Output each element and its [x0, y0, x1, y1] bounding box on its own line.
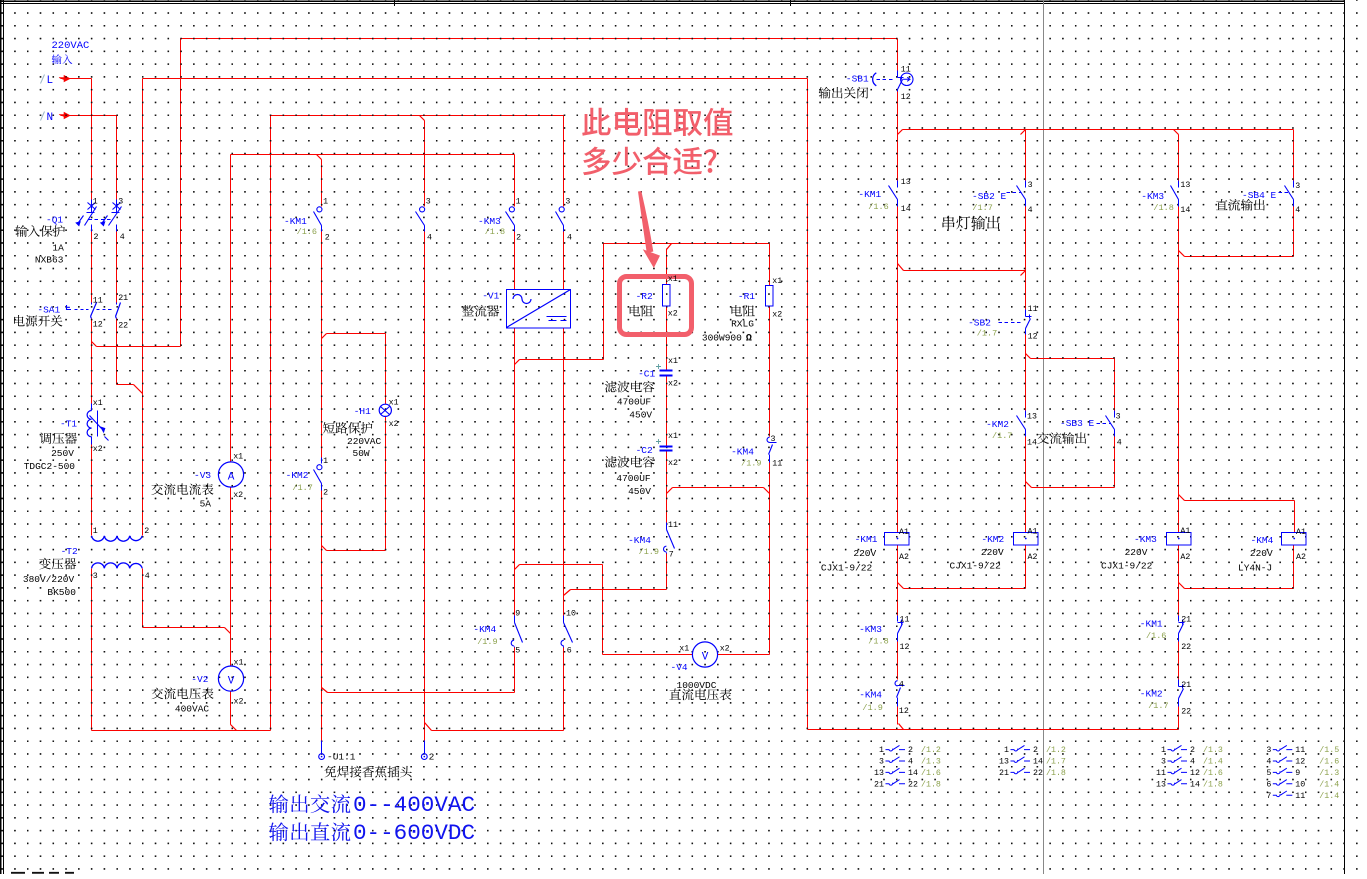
svg-text:/1.3: /1.3	[921, 757, 941, 767]
svg-text:1000VDC: 1000VDC	[677, 680, 717, 691]
svg-text:1: 1	[879, 746, 884, 755]
svg-text:450V: 450V	[629, 410, 652, 421]
svg-text:-SB1: -SB1	[846, 73, 869, 84]
svg-text:21: 21	[1181, 681, 1191, 690]
svg-text:2: 2	[323, 489, 328, 498]
svg-text:A1: A1	[1296, 528, 1306, 537]
svg-text:220VAC: 220VAC	[52, 40, 90, 52]
svg-text:/1.9: /1.9	[862, 703, 882, 713]
svg-text:0--400VAC: 0--400VAC	[353, 792, 475, 818]
svg-text:x1: x1	[668, 275, 678, 284]
svg-text:3: 3	[1028, 181, 1033, 190]
svg-text:V: V	[228, 675, 235, 687]
svg-text:RXLG: RXLG	[731, 318, 754, 329]
svg-text:-KM3: -KM3	[1134, 534, 1157, 545]
svg-text:x1: x1	[668, 357, 678, 366]
svg-text:CJX1-9/22: CJX1-9/22	[950, 561, 1002, 572]
svg-text:-V3: -V3	[194, 470, 211, 481]
svg-text:-SB2 E: -SB2 E	[972, 191, 1007, 202]
svg-text:L: L	[47, 75, 54, 87]
svg-text:x1: x1	[93, 399, 103, 408]
svg-text:3: 3	[1266, 746, 1271, 755]
svg-text:11: 11	[900, 616, 910, 625]
svg-text:x2: x2	[668, 379, 678, 388]
svg-text:12: 12	[899, 707, 909, 716]
svg-text:1: 1	[323, 457, 328, 466]
svg-text:220VAC: 220VAC	[347, 436, 382, 447]
svg-text:/1.8: /1.8	[485, 227, 505, 237]
svg-text:4: 4	[1295, 206, 1300, 215]
svg-text:1: 1	[93, 197, 98, 206]
svg-text:/1.3: /1.3	[1319, 768, 1339, 778]
svg-text:CJX1-9/22: CJX1-9/22	[821, 563, 873, 574]
svg-text:A2: A2	[1296, 553, 1306, 562]
svg-text:/1.7: /1.7	[292, 483, 312, 493]
svg-text:7: 7	[1266, 792, 1271, 801]
svg-text:450V: 450V	[628, 486, 651, 497]
svg-text:4: 4	[427, 234, 432, 243]
svg-text:-KM2: -KM2	[986, 419, 1009, 430]
svg-text:11: 11	[1295, 792, 1305, 801]
svg-text:/1.6: /1.6	[868, 202, 888, 212]
svg-text:/1.6: /1.6	[297, 227, 317, 237]
svg-text:14: 14	[901, 205, 911, 214]
svg-text:1: 1	[323, 197, 328, 206]
svg-text:-KM2: -KM2	[1140, 689, 1163, 700]
svg-text:x1: x1	[234, 658, 244, 667]
svg-text:3: 3	[1116, 413, 1121, 422]
svg-text:x2: x2	[234, 697, 244, 706]
svg-text:-KM4: -KM4	[628, 535, 651, 546]
svg-text:x1: x1	[233, 453, 243, 462]
svg-text:1: 1	[516, 197, 521, 206]
svg-text:22: 22	[118, 322, 128, 331]
svg-text:-SB2: -SB2	[968, 317, 991, 328]
svg-text:x2: x2	[668, 459, 678, 468]
svg-text:14: 14	[908, 769, 918, 778]
svg-text:4: 4	[120, 233, 125, 242]
svg-text:380V/220V: 380V/220V	[23, 574, 75, 585]
svg-text:Ω: Ω	[746, 334, 752, 345]
svg-text:-KM3: -KM3	[1141, 191, 1164, 202]
svg-text:3: 3	[1161, 758, 1166, 767]
svg-text:3: 3	[879, 758, 884, 767]
svg-text:220V: 220V	[981, 547, 1004, 558]
svg-text:TDGC2-500: TDGC2-500	[24, 461, 76, 472]
svg-text:-Q1: -Q1	[46, 215, 63, 226]
svg-text:x1: x1	[389, 399, 399, 408]
svg-text:12: 12	[901, 93, 911, 102]
svg-text:NXB63: NXB63	[35, 254, 64, 265]
svg-text:x1: x1	[668, 432, 678, 441]
svg-text:4: 4	[1266, 758, 1271, 767]
svg-text:LY4N-J: LY4N-J	[1238, 563, 1272, 574]
svg-text:A1: A1	[1028, 528, 1038, 537]
svg-text:1: 1	[1161, 746, 1166, 755]
svg-text:3: 3	[1295, 182, 1300, 191]
svg-text:/1.9: /1.9	[741, 458, 761, 468]
svg-text:A1: A1	[1180, 527, 1190, 536]
svg-text:5: 5	[515, 647, 520, 656]
svg-text:21: 21	[1181, 616, 1191, 625]
svg-text:A2: A2	[1028, 553, 1038, 562]
svg-text:/1.8: /1.8	[868, 637, 888, 647]
svg-text:12: 12	[1295, 758, 1305, 767]
svg-text:13: 13	[901, 178, 911, 187]
svg-text:220V: 220V	[853, 548, 876, 559]
svg-text:2: 2	[94, 233, 99, 242]
svg-text:A1: A1	[899, 528, 909, 537]
svg-text:2: 2	[429, 752, 435, 763]
svg-text:x2: x2	[668, 309, 678, 318]
svg-text:13: 13	[1180, 181, 1190, 190]
svg-text:-U1:1: -U1:1	[327, 752, 356, 763]
svg-text:/1.9: /1.9	[477, 637, 497, 647]
svg-text:11: 11	[901, 65, 911, 74]
svg-text:5: 5	[1266, 769, 1271, 778]
svg-text:4: 4	[908, 758, 913, 767]
svg-text:/1.8: /1.8	[1153, 203, 1173, 213]
svg-text:-T2: -T2	[61, 546, 78, 557]
svg-text:/1.2: /1.2	[1046, 745, 1066, 755]
svg-text:/1.9: /1.9	[639, 547, 659, 557]
svg-text:4: 4	[1117, 439, 1122, 448]
svg-text:/1.6: /1.6	[1146, 631, 1166, 641]
svg-text:4700UF: 4700UF	[616, 473, 651, 484]
svg-text:-T1: -T1	[60, 419, 77, 430]
svg-text:-KM2: -KM2	[286, 470, 309, 481]
svg-text:22: 22	[1181, 643, 1191, 652]
svg-text:-KM1: -KM1	[1140, 619, 1163, 630]
svg-text:-KM4: -KM4	[731, 447, 754, 458]
svg-text:21: 21	[999, 769, 1009, 778]
svg-text:11: 11	[1156, 769, 1166, 778]
svg-text:-KM4: -KM4	[1251, 535, 1274, 546]
svg-text:22: 22	[1033, 769, 1043, 778]
svg-text:2: 2	[325, 234, 330, 243]
svg-text:/1.6: /1.6	[1203, 768, 1223, 778]
svg-text:/1.4: /1.4	[1203, 757, 1223, 767]
svg-text:13: 13	[1027, 413, 1037, 422]
svg-text:400VAC: 400VAC	[175, 703, 210, 714]
svg-text:A2: A2	[1180, 553, 1190, 562]
svg-text:x1: x1	[772, 277, 782, 286]
svg-text:220V: 220V	[1125, 547, 1148, 558]
svg-text:x2: x2	[772, 310, 782, 319]
svg-text:-KM3: -KM3	[859, 624, 882, 635]
svg-text:-H1: -H1	[354, 406, 371, 417]
svg-text:21: 21	[874, 780, 884, 789]
svg-text:/1.6: /1.6	[921, 768, 941, 778]
svg-text:/1.4: /1.4	[1319, 791, 1339, 801]
svg-text:x2: x2	[389, 420, 399, 429]
svg-text:-KM4: -KM4	[473, 624, 496, 635]
svg-text:2: 2	[516, 234, 521, 243]
svg-text:A: A	[228, 471, 235, 483]
svg-text:-SB3 E: -SB3 E	[1060, 418, 1095, 429]
svg-text:11: 11	[93, 296, 103, 305]
svg-text:-KM1: -KM1	[284, 216, 307, 227]
svg-text:x2: x2	[233, 491, 243, 500]
svg-text:/1.8: /1.8	[1046, 768, 1066, 778]
svg-text:11: 11	[772, 459, 782, 468]
svg-text:12: 12	[1028, 333, 1038, 342]
svg-text:4700UF: 4700UF	[617, 397, 652, 408]
svg-text:14: 14	[1033, 758, 1043, 767]
svg-text:2: 2	[1033, 746, 1038, 755]
svg-text:0--600VDC: 0--600VDC	[353, 820, 475, 846]
svg-text:11: 11	[668, 521, 678, 530]
svg-text:x2: x2	[720, 645, 730, 654]
svg-text:-V2: -V2	[191, 674, 208, 685]
svg-text:-V4: -V4	[671, 662, 688, 673]
svg-text:/1.2: /1.2	[921, 745, 941, 755]
svg-text:3: 3	[771, 435, 776, 444]
svg-text:220V: 220V	[1250, 548, 1273, 559]
svg-text:300W900: 300W900	[702, 333, 742, 344]
svg-text:6: 6	[1266, 780, 1271, 789]
svg-text:14: 14	[1190, 780, 1200, 789]
svg-text:/1.8: /1.8	[921, 779, 941, 789]
svg-text:13: 13	[1156, 780, 1166, 789]
svg-text:11: 11	[1028, 305, 1038, 314]
svg-text:V: V	[702, 651, 709, 663]
svg-text:13: 13	[874, 769, 884, 778]
svg-text:4: 4	[1190, 758, 1195, 767]
svg-text:1: 1	[93, 527, 98, 536]
svg-text:x1: x1	[679, 645, 689, 654]
svg-text:/1.4: /1.4	[1319, 779, 1339, 789]
svg-text:-KM3: -KM3	[478, 216, 501, 227]
svg-text:21: 21	[118, 294, 128, 303]
svg-text:/1.7: /1.7	[992, 431, 1012, 441]
svg-text:4: 4	[899, 681, 904, 690]
svg-text:/1.5: /1.5	[1319, 745, 1339, 755]
svg-text:6: 6	[567, 647, 572, 656]
svg-text:x2: x2	[93, 445, 103, 454]
svg-text:3: 3	[565, 197, 570, 206]
svg-text:-C2: -C2	[636, 445, 653, 456]
svg-text:3: 3	[426, 197, 431, 206]
svg-text:4: 4	[145, 572, 150, 581]
svg-text:-SA1: -SA1	[37, 304, 60, 315]
svg-text:-KM1: -KM1	[858, 189, 881, 200]
svg-text:A2: A2	[899, 553, 909, 562]
svg-text:2: 2	[1190, 746, 1195, 755]
svg-text:CJX1-9/22: CJX1-9/22	[1101, 561, 1153, 572]
svg-text:-R1: -R1	[738, 291, 755, 302]
svg-text:3: 3	[118, 197, 123, 206]
svg-text:4: 4	[1028, 206, 1033, 215]
svg-text:-C1: -C1	[638, 368, 655, 379]
svg-text:/1.7: /1.7	[1148, 701, 1168, 711]
svg-text:-KM4: -KM4	[859, 689, 882, 700]
svg-text:5A: 5A	[200, 498, 212, 509]
svg-text:/1.7: /1.7	[1046, 757, 1066, 767]
svg-text:2: 2	[144, 527, 149, 536]
svg-text:/1.7: /1.7	[977, 329, 997, 339]
svg-text:1: 1	[1004, 746, 1009, 755]
svg-text:9: 9	[1295, 769, 1300, 778]
svg-text:-KM2: -KM2	[981, 534, 1004, 545]
svg-text:11: 11	[1295, 746, 1305, 755]
svg-text:2: 2	[908, 746, 913, 755]
svg-text:10: 10	[1295, 780, 1305, 789]
svg-text:/1.8: /1.8	[1203, 779, 1223, 789]
svg-text:3: 3	[93, 572, 98, 581]
svg-text:4: 4	[567, 234, 572, 243]
svg-text:12: 12	[93, 321, 103, 330]
svg-text:N: N	[47, 112, 54, 124]
svg-text:250V: 250V	[51, 448, 74, 459]
svg-text:14: 14	[1180, 206, 1190, 215]
svg-text:13: 13	[999, 758, 1009, 767]
svg-text:50W: 50W	[353, 448, 370, 459]
svg-text:/1:7: /1:7	[972, 203, 992, 213]
svg-text:-R2: -R2	[636, 291, 653, 302]
svg-text:12: 12	[900, 643, 910, 652]
svg-text:10: 10	[566, 609, 576, 618]
svg-text:-V1: -V1	[482, 290, 499, 301]
svg-text:12: 12	[1190, 769, 1200, 778]
svg-text:14: 14	[1027, 438, 1037, 447]
svg-text:7: 7	[669, 551, 674, 560]
svg-text:22: 22	[908, 780, 918, 789]
svg-text:1A: 1A	[52, 242, 64, 253]
svg-text:BK500: BK500	[47, 587, 76, 598]
svg-text:/1.6: /1.6	[1319, 757, 1339, 767]
svg-text:22: 22	[1181, 707, 1191, 716]
svg-text:/1.3: /1.3	[1203, 745, 1223, 755]
svg-text:9: 9	[515, 609, 520, 618]
svg-text:-KM1: -KM1	[855, 534, 878, 545]
